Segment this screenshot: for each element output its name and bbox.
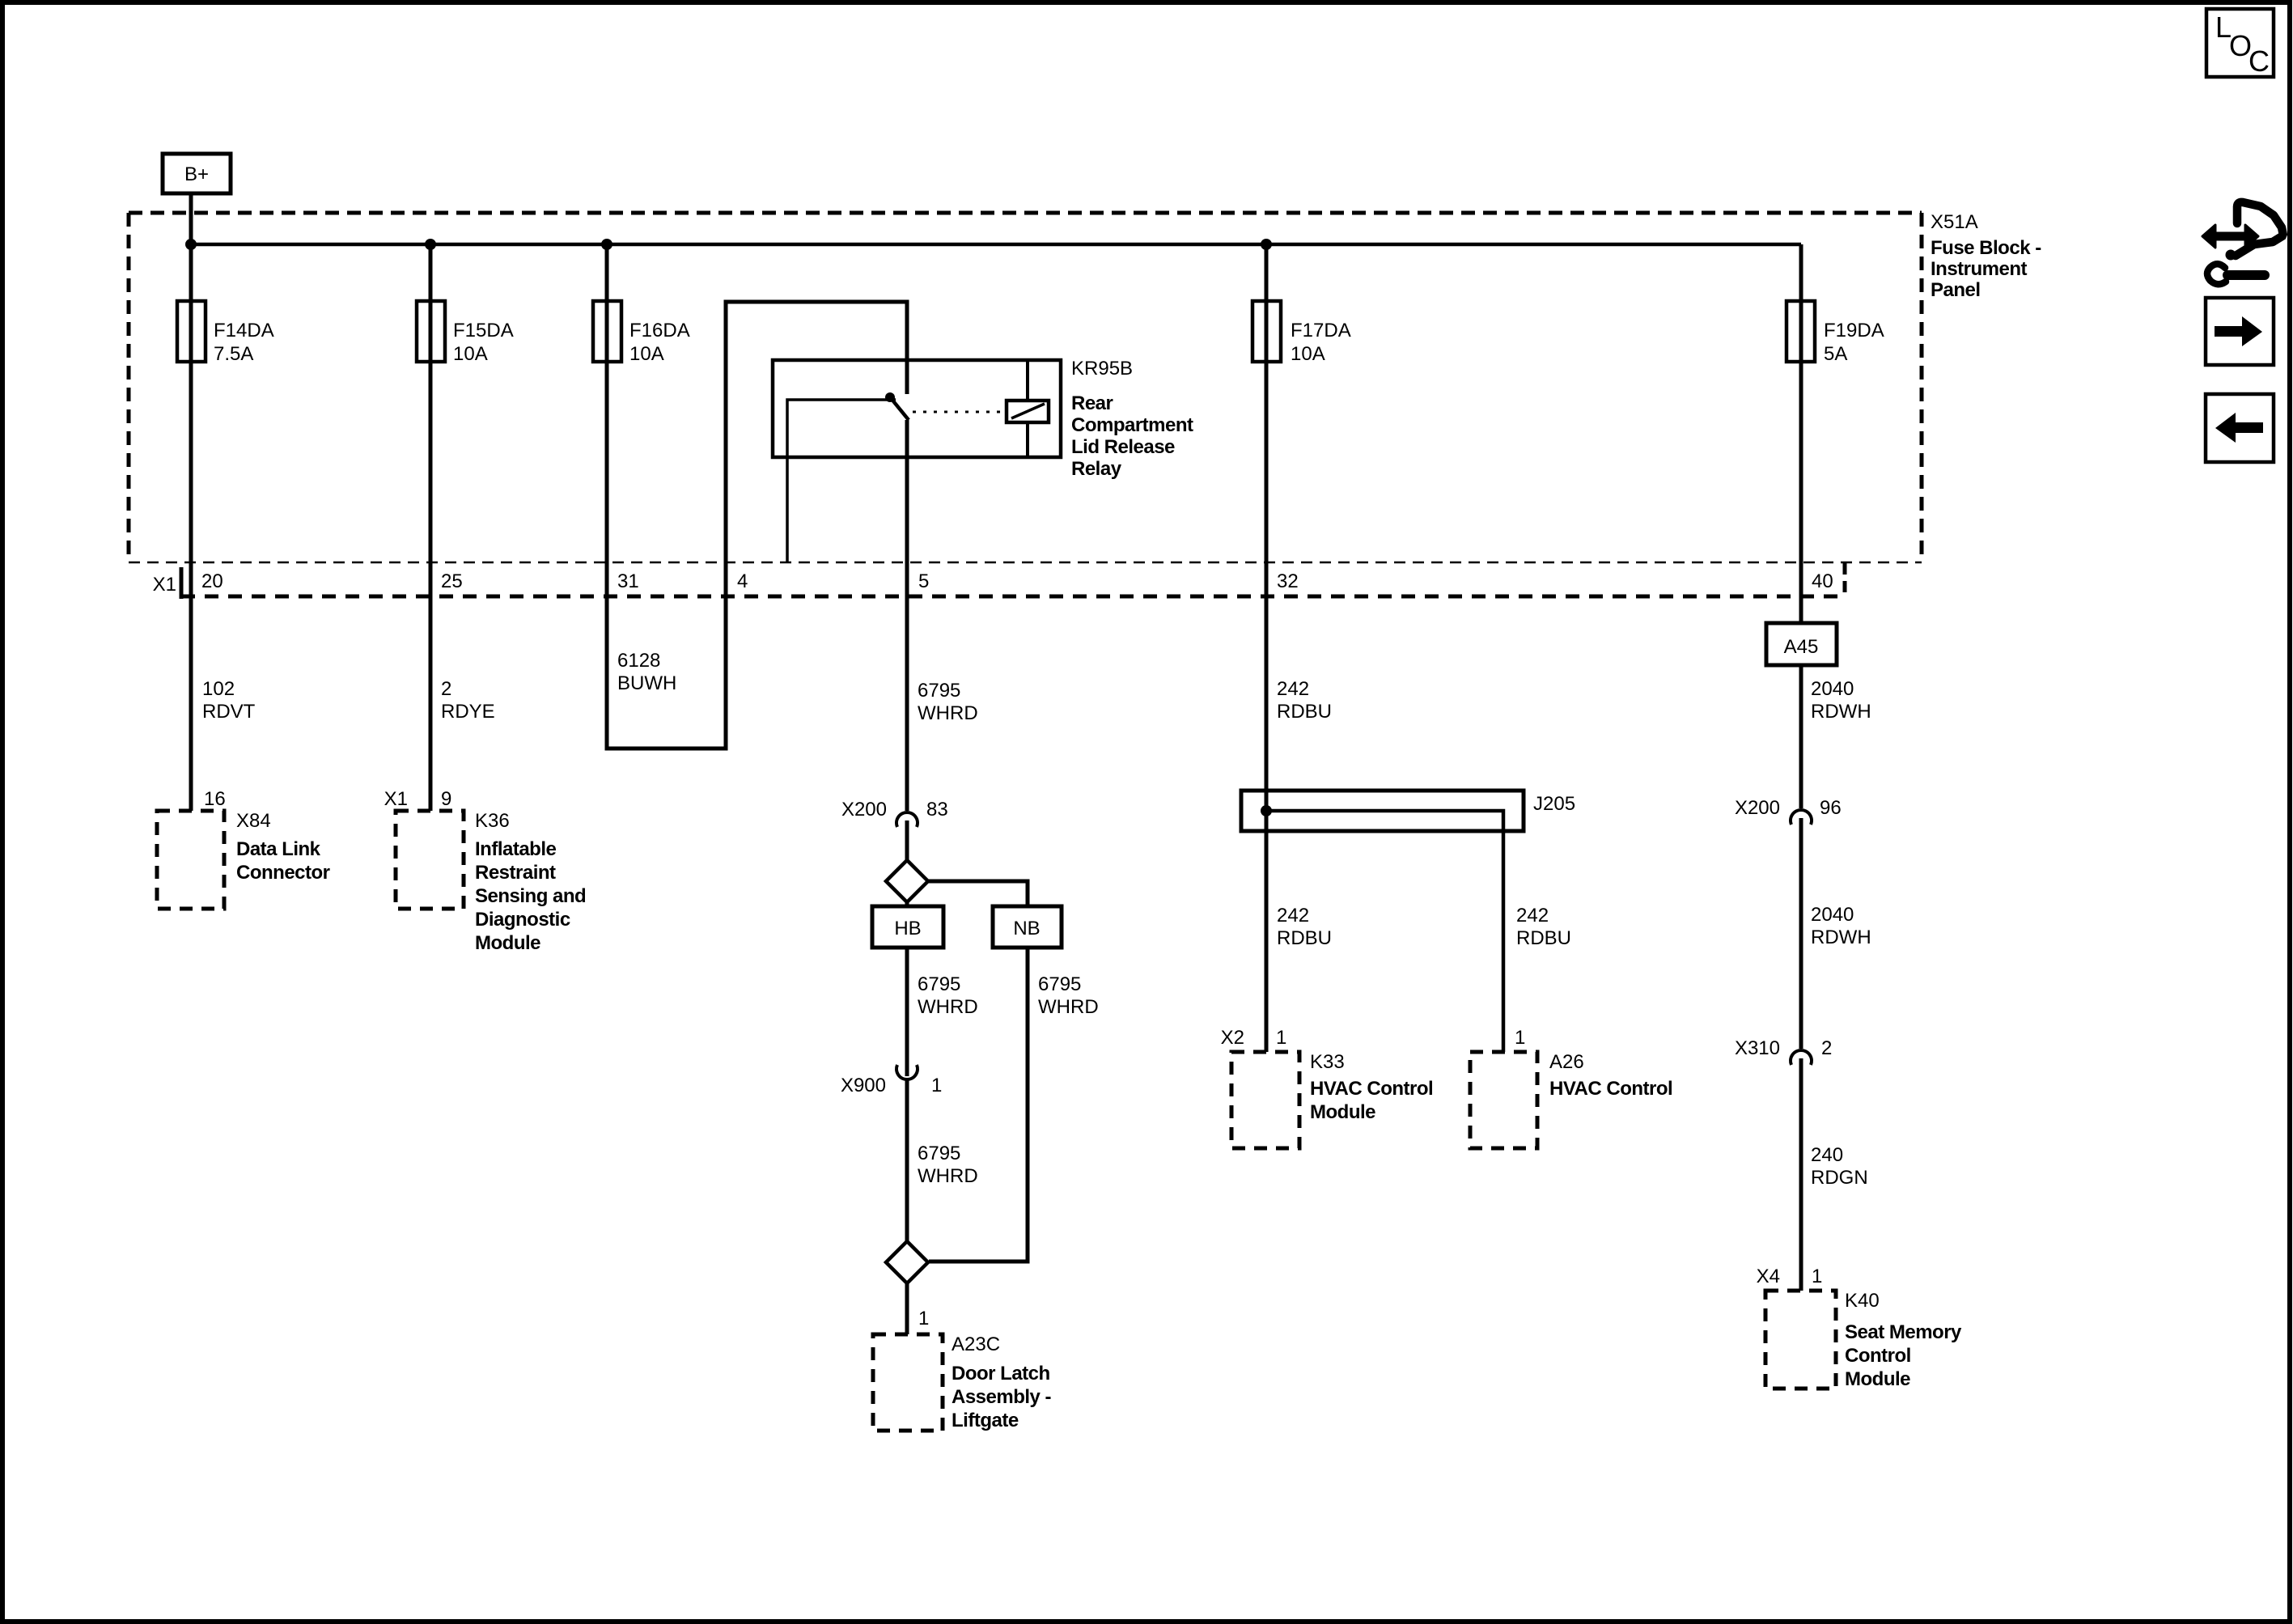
relay KR95B coil	[1007, 360, 1049, 457]
svg-text:K40: K40	[1845, 1290, 1880, 1312]
relay KR95B actuation dotted line	[913, 411, 1005, 413]
fuse block X51A dashed outline	[129, 213, 1922, 562]
inline connector X310 pin 2	[1735, 1037, 1832, 1065]
inline connector X200 pin 83	[841, 799, 948, 827]
svg-text:Module: Module	[1845, 1368, 1910, 1390]
splice NB	[993, 906, 1062, 948]
svg-text:6795: 6795	[1038, 973, 1081, 995]
relay KR95B box	[773, 360, 1061, 457]
wire label 242 RDBU (to K33)	[1277, 905, 1332, 949]
inline connector X900 pin 1	[841, 1065, 942, 1096]
svg-text:X51A: X51A	[1931, 211, 1978, 233]
wire fuse F19DA branch pin 40	[1799, 244, 1803, 623]
wire NB down and across to splice S2	[929, 948, 1028, 1261]
svg-text:X200: X200	[841, 799, 887, 820]
svg-text:242: 242	[1277, 905, 1309, 926]
label K36 Inflatable Restraint Sensing and Diagnostic Module	[475, 810, 586, 954]
svg-text:Door Latch: Door Latch	[952, 1363, 1050, 1384]
svg-text:Module: Module	[1310, 1101, 1375, 1123]
wire fuse F15DA branch pin 25	[429, 244, 433, 811]
bus wire B+ distribution	[191, 243, 1801, 247]
wire label 6128 BUWH	[617, 650, 676, 694]
arrow next box	[2206, 298, 2274, 365]
wire label 242 RDBU (to A26)	[1516, 905, 1571, 949]
svg-text:96: 96	[1820, 797, 1842, 819]
wire label 2040 RDWH (pin 40)	[1811, 678, 1871, 723]
svg-text:RDGN: RDGN	[1811, 1167, 1868, 1189]
pin X2 1 labels at K33	[1221, 1027, 1287, 1049]
power symbol B+	[163, 154, 231, 193]
junction dot at F17DA tap	[1261, 239, 1272, 250]
wire splice S2 to A23C pin 1	[905, 1283, 909, 1334]
module K33 connector	[1231, 1052, 1299, 1148]
svg-text:7.5A: 7.5A	[214, 343, 253, 365]
svg-text:RDYE: RDYE	[441, 701, 495, 723]
label K33 HVAC Control Module	[1310, 1051, 1433, 1123]
svg-text:F17DA: F17DA	[1291, 320, 1351, 341]
svg-text:Connector: Connector	[236, 862, 330, 884]
svg-text:242: 242	[1277, 678, 1309, 700]
label relay KR95B	[1071, 358, 1193, 480]
svg-text:K36: K36	[475, 810, 510, 832]
fuse F15DA	[417, 301, 514, 365]
label A23C Door Latch Assembly - Liftgate	[952, 1334, 1052, 1431]
svg-text:WHRD: WHRD	[918, 1165, 978, 1187]
connector A45	[1766, 623, 1837, 665]
svg-text:1: 1	[1812, 1266, 1822, 1287]
wire label 6795 WHRD (below NB)	[1038, 973, 1099, 1018]
svg-text:Rear: Rear	[1071, 392, 1113, 414]
svg-text:25: 25	[441, 570, 463, 592]
pin X1 9 labels at K36	[384, 788, 452, 810]
wire label 102 RDVT	[202, 678, 256, 723]
fuse F14DA	[177, 301, 274, 365]
wire label 242 RDBU (pin 32)	[1277, 678, 1332, 723]
svg-text:X900: X900	[841, 1075, 886, 1096]
svg-text:Fuse Block -: Fuse Block -	[1931, 237, 2041, 259]
svg-text:B+: B+	[184, 163, 209, 185]
svg-text:32: 32	[1277, 570, 1299, 592]
svg-text:6795: 6795	[918, 973, 960, 995]
svg-text:RDBU: RDBU	[1277, 701, 1332, 723]
splice diamond S2	[886, 1241, 928, 1283]
svg-text:83: 83	[926, 799, 948, 820]
svg-text:40: 40	[1812, 570, 1833, 592]
wire X200 83 to splice	[905, 820, 909, 861]
LOC box	[2206, 9, 2274, 78]
wire A45 to X200 96	[1799, 665, 1803, 808]
svg-text:Diagnostic: Diagnostic	[475, 909, 570, 931]
arrow previous box	[2206, 394, 2274, 462]
label X84 Data Link Connector	[236, 810, 330, 884]
svg-text:Panel: Panel	[1931, 279, 1981, 301]
svg-text:10A: 10A	[629, 343, 664, 365]
splice diamond S1	[886, 860, 928, 902]
junction dot at F15DA tap	[425, 239, 436, 250]
module K36 connector	[396, 811, 464, 909]
connector X1 row	[153, 563, 1845, 599]
svg-text:10A: 10A	[1291, 343, 1325, 365]
wire fuse F14DA branch pin 20	[189, 244, 193, 811]
wire label third 6795 WHRD	[918, 1143, 978, 1187]
svg-text:2: 2	[441, 678, 451, 700]
svg-text:HB: HB	[894, 918, 921, 939]
wire relay switch pin 5 down	[905, 420, 909, 811]
label A26 HVAC Control	[1549, 1051, 1672, 1100]
svg-text:RDBU: RDBU	[1277, 927, 1332, 949]
svg-text:RDWH: RDWH	[1811, 926, 1871, 948]
svg-text:1: 1	[1515, 1027, 1525, 1049]
svg-text:9: 9	[441, 788, 451, 810]
svg-text:102: 102	[202, 678, 235, 700]
label K40 Seat Memory Control Module	[1845, 1290, 1962, 1390]
connector A23C	[873, 1334, 943, 1431]
svg-text:Liftgate: Liftgate	[952, 1410, 1019, 1431]
fuse F19DA	[1787, 301, 1884, 365]
junction block J205	[1241, 791, 1575, 1052]
svg-text:KR95B: KR95B	[1071, 358, 1133, 379]
svg-text:K33: K33	[1310, 1051, 1345, 1073]
svg-text:2: 2	[1821, 1037, 1832, 1059]
svg-text:Compartment: Compartment	[1071, 414, 1193, 436]
wire splice S1 to HB	[905, 902, 909, 908]
label X51A Fuse Block - Instrument Panel	[1931, 211, 2041, 301]
svg-text:J205: J205	[1533, 793, 1575, 815]
svg-text:RDWH: RDWH	[1811, 701, 1871, 723]
svg-text:HVAC Control: HVAC Control	[1310, 1078, 1433, 1100]
svg-text:WHRD: WHRD	[1038, 996, 1099, 1018]
svg-text:5A: 5A	[1824, 343, 1847, 365]
svg-text:RDVT: RDVT	[202, 701, 256, 723]
relay KR95B switch feed wire	[787, 400, 896, 562]
svg-text:X4: X4	[1757, 1266, 1780, 1287]
svg-text:F14DA: F14DA	[214, 320, 274, 341]
wire X900 to splice S2	[905, 1079, 909, 1242]
svg-text:A23C: A23C	[952, 1334, 1000, 1355]
inline connector X200 pin 96	[1735, 797, 1842, 825]
module K40 connector	[1765, 1291, 1836, 1389]
fuse F17DA	[1252, 301, 1351, 365]
wire fuse F17DA branch pin 32	[1265, 244, 1269, 1052]
svg-text:16: 16	[204, 788, 226, 810]
svg-text:1: 1	[1276, 1027, 1286, 1049]
svg-text:Instrument: Instrument	[1931, 258, 2028, 280]
wire label 2 RDYE	[441, 678, 495, 723]
junction dot at F16DA tap	[601, 239, 612, 250]
svg-text:242: 242	[1516, 905, 1549, 926]
wire X200 96 to X310 2	[1799, 818, 1803, 1049]
svg-text:Sensing and: Sensing and	[475, 885, 586, 907]
relay KR95B switch contact	[885, 392, 895, 402]
svg-text:BUWH: BUWH	[617, 672, 676, 694]
svg-text:Lid Release: Lid Release	[1071, 436, 1175, 458]
svg-text:4: 4	[737, 570, 748, 592]
svg-text:X84: X84	[236, 810, 271, 832]
svg-text:20: 20	[201, 570, 223, 592]
svg-text:6128: 6128	[617, 650, 660, 672]
svg-text:A45: A45	[1784, 636, 1819, 658]
wire fuse F16DA branch pin 31 and 6128 loop to pin 4	[607, 244, 907, 748]
svg-text:31: 31	[617, 570, 639, 592]
relay KR95B switch arm	[891, 398, 909, 420]
svg-text:X200: X200	[1735, 797, 1780, 819]
wire label 6795 WHRD (pin 5)	[918, 680, 978, 724]
svg-text:6795: 6795	[918, 1143, 960, 1164]
svg-text:HVAC Control: HVAC Control	[1549, 1078, 1672, 1100]
svg-text:1: 1	[931, 1075, 942, 1096]
svg-text:Inflatable: Inflatable	[475, 838, 557, 860]
svg-text:Data Link: Data Link	[236, 838, 321, 860]
junction dot at F14DA tap	[185, 239, 197, 250]
svg-text:5: 5	[918, 570, 929, 592]
svg-text:F19DA: F19DA	[1824, 320, 1884, 341]
routing continuation icon	[2202, 202, 2283, 284]
svg-text:Control: Control	[1845, 1345, 1911, 1367]
svg-text:Module: Module	[475, 932, 540, 954]
svg-text:NB: NB	[1013, 918, 1040, 939]
svg-text:WHRD: WHRD	[918, 702, 978, 724]
svg-text:Assembly -: Assembly -	[952, 1386, 1052, 1408]
svg-text:RDBU: RDBU	[1516, 927, 1571, 949]
svg-text:Seat Memory: Seat Memory	[1845, 1321, 1962, 1343]
pin X4 1 labels at K40	[1757, 1266, 1823, 1287]
svg-text:C: C	[2248, 45, 2270, 78]
svg-text:6795: 6795	[918, 680, 960, 702]
wire B+ feed	[189, 193, 193, 244]
svg-text:A26: A26	[1549, 1051, 1584, 1073]
svg-text:F16DA: F16DA	[629, 320, 690, 341]
module A26 connector	[1470, 1052, 1537, 1148]
svg-text:Restraint: Restraint	[475, 862, 556, 884]
svg-text:X310: X310	[1735, 1037, 1780, 1059]
svg-text:Relay: Relay	[1071, 458, 1122, 480]
svg-text:10A: 10A	[453, 343, 488, 365]
svg-text:2040: 2040	[1811, 904, 1854, 926]
wire X310 2 to K40	[1799, 1058, 1803, 1291]
connector X84	[157, 811, 224, 909]
svg-text:1: 1	[918, 1308, 929, 1329]
svg-text:X1: X1	[153, 574, 176, 596]
fuse F16DA	[593, 301, 690, 365]
svg-text:X2: X2	[1221, 1027, 1244, 1049]
svg-text:F15DA: F15DA	[453, 320, 514, 341]
svg-text:WHRD: WHRD	[918, 996, 978, 1018]
wire splice S1 branch to NB	[928, 881, 1028, 908]
wire label 2040 RDWH (lower)	[1811, 904, 1871, 948]
wire label 6795 WHRD (below HB)	[918, 973, 978, 1018]
wire label 240 RDGN	[1811, 1144, 1868, 1189]
svg-text:2040: 2040	[1811, 678, 1854, 700]
splice HB	[872, 906, 943, 948]
wire HB down to X900	[905, 948, 909, 1076]
svg-text:240: 240	[1811, 1144, 1843, 1166]
svg-text:X1: X1	[384, 788, 408, 810]
fuse block X51A bottom fine dashed edge	[129, 562, 1922, 564]
